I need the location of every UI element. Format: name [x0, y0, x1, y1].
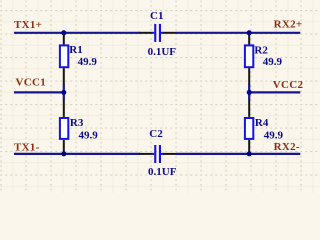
svg-text:49.9: 49.9	[78, 56, 98, 68]
wire: VCC2 horizontal	[248, 91, 300, 93]
svg-text:C2: C2	[149, 128, 163, 140]
svg-text:49.9: 49.9	[263, 56, 283, 68]
svg-text:TX1-: TX1-	[14, 141, 40, 153]
wire: TX1- net, bottom-left horizontal	[14, 153, 140, 155]
junction node: RX2+ / R2	[247, 30, 252, 35]
wire: RX2- net, bottom-right horizontal	[176, 153, 300, 155]
junction node: TX1+ / R1	[61, 30, 66, 35]
svg-text:R4: R4	[255, 117, 269, 129]
junction node: VCC1 / R1 / R3	[61, 90, 66, 95]
resistor R2	[245, 33, 253, 85]
capacitor C2	[139, 145, 176, 163]
svg-text:RX2-: RX2-	[274, 141, 300, 153]
wire: VCC1 horizontal	[14, 91, 65, 93]
resistor R4	[245, 99, 253, 154]
resistor R1	[60, 33, 68, 85]
wire: right column vertical between R2 and R4	[248, 84, 250, 99]
resistor R3	[60, 99, 68, 154]
svg-text:VCC2: VCC2	[273, 79, 304, 91]
svg-text:RX2+: RX2+	[274, 19, 303, 31]
wire: RX2+ net, top-right horizontal	[176, 32, 300, 34]
junction node: TX1- / R3	[61, 151, 66, 156]
wire: TX1+ net, top-left horizontal	[14, 32, 140, 34]
capacitor C1	[139, 24, 176, 42]
svg-text:0.1UF: 0.1UF	[148, 166, 177, 178]
svg-text:R3: R3	[70, 117, 84, 129]
junction node: VCC2 / R2 / R4	[247, 90, 252, 95]
svg-text:R2: R2	[254, 44, 268, 56]
svg-text:VCC1: VCC1	[16, 77, 47, 89]
svg-text:49.9: 49.9	[79, 129, 99, 141]
svg-text:TX1+: TX1+	[14, 19, 42, 31]
svg-text:R1: R1	[69, 44, 82, 56]
wire: left column vertical between R1 and R3	[63, 84, 65, 99]
junction node: RX2- / R4	[247, 151, 252, 156]
svg-text:49.9: 49.9	[264, 129, 284, 141]
svg-text:C1: C1	[150, 10, 163, 22]
svg-text:0.1UF: 0.1UF	[148, 46, 177, 58]
